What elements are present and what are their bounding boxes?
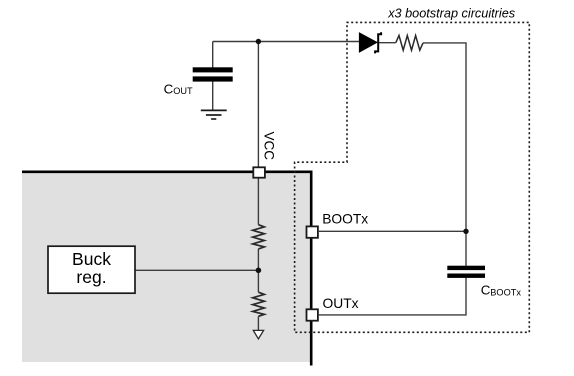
svg-text:CBOOTx: CBOOTx [481,282,522,297]
svg-text:Buck: Buck [72,249,111,269]
svg-text:OUTx: OUTx [323,296,359,311]
svg-text:COUT: COUT [164,82,193,97]
svg-text:VCC: VCC [262,132,277,161]
svg-text:reg.: reg. [76,267,106,287]
svg-text:x3 bootstrap circuitries: x3 bootstrap circuitries [387,7,516,21]
svg-text:BOOTx: BOOTx [322,212,368,227]
